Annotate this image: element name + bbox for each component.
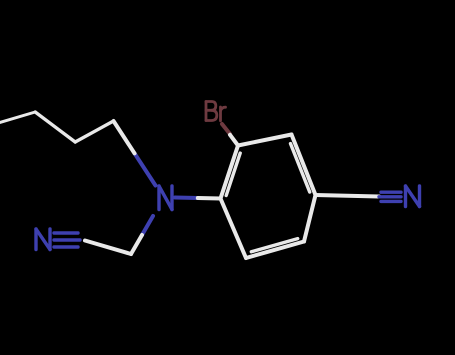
bond CH2 to nitrile carbon (white) xyxy=(85,241,131,255)
benzene ring bond C4-C5 xyxy=(304,195,316,242)
amine N atom label (blue letter N) xyxy=(159,186,172,210)
benzene ring bond C5-C6 inner double line xyxy=(251,239,297,252)
right nitrile triple bond line 1 (blue) xyxy=(381,190,401,193)
left nitrile N atom label (blue letter N) xyxy=(36,229,50,250)
chain bond P2-P1 (white) xyxy=(35,112,75,142)
chain bond P1 to image edge (white) xyxy=(0,112,35,123)
left nitrile triple bond line 1 (blue) xyxy=(54,231,78,234)
bond amine N to ring C1, N half (blue) xyxy=(175,196,198,201)
benzene ring bond C5-C6 (double bond outer) xyxy=(246,242,304,259)
Br atom label (dark red letters Br) xyxy=(206,102,226,121)
left nitrile triple bond line 3 (blue) xyxy=(54,245,78,248)
bond amine N to ring C1, carbon half (white) xyxy=(198,196,221,201)
bond amine N to chain carbon P3, carbon half (white) xyxy=(114,121,135,153)
chain bond P3-P2 (white) xyxy=(75,121,113,142)
benzene ring bond C1-C2 (double bond outer) xyxy=(221,146,239,199)
benzene ring bond C2-C3 xyxy=(238,135,292,146)
bond Br to ring C2, Br half (dark red) xyxy=(222,124,230,134)
bond amine N to CH2, carbon half (white) xyxy=(131,235,142,254)
benzene ring bond C1-C2 inner double line xyxy=(226,153,240,195)
benzene ring bond C3-C4 (double bond outer) xyxy=(292,135,316,196)
right nitrile triple bond line 2 (blue) xyxy=(379,195,401,198)
left nitrile triple bond line 2 (blue) xyxy=(54,238,80,241)
bond ring C4 to right nitrile carbon (white) xyxy=(316,195,380,197)
bond Br to ring C2, carbon half (white) xyxy=(230,135,238,146)
benzene ring bond C6-C1 xyxy=(221,199,247,259)
benzene ring bond C3-C4 inner double line xyxy=(291,144,310,192)
right nitrile N atom label (blue letter N) xyxy=(406,186,420,207)
bond amine N to CH2 (down-left), N half (blue) xyxy=(142,216,153,235)
bond amine N to chain carbon P3 (up-left), N half (blue) xyxy=(135,153,156,185)
right nitrile triple bond line 3 (blue) xyxy=(381,200,401,203)
